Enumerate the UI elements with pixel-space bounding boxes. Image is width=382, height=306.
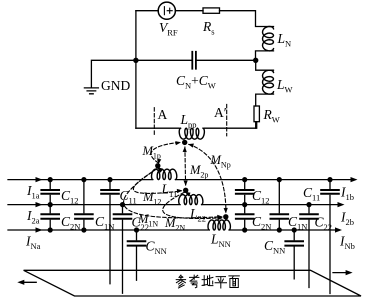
capacitor C_NN (left) <box>136 230 138 280</box>
capacitor C_11 (right) <box>329 180 331 294</box>
svg-text:CNN: CNN <box>264 238 285 256</box>
junction (122.5,204.6) <box>120 202 125 207</box>
svg-text:CN+CW: CN+CW <box>176 73 216 91</box>
wire line3 <box>8 229 339 231</box>
svg-text:MNp: MNp <box>210 153 231 170</box>
inductor L_NN <box>208 220 230 230</box>
source V_RF <box>158 2 175 19</box>
junction (244.7,230.0) <box>242 227 247 232</box>
wire line1 <box>8 179 354 181</box>
capacitor C_N+C_W plates <box>192 52 196 69</box>
svg-text:C2N: C2N <box>61 214 80 232</box>
svg-text:Rs: Rs <box>202 19 215 37</box>
mutual M_1p <box>151 142 179 163</box>
dot terminal L_pp <box>182 140 187 145</box>
mutual M_2p <box>184 147 187 185</box>
svg-text:I2b: I2b <box>340 210 354 228</box>
capacitor C_12 (right) <box>244 180 246 205</box>
svg-text:INa: INa <box>25 234 41 252</box>
return current arrow right <box>333 272 349 274</box>
junction (294.2,230.0) <box>292 227 297 232</box>
svg-text:C1N: C1N <box>95 214 114 232</box>
wire bottom A-A' <box>136 122 256 129</box>
inductor L_pp <box>179 128 204 139</box>
mutual M_Np <box>189 144 226 212</box>
junction (136.5,230.0) <box>134 227 139 232</box>
capacitor C_12 (left) <box>49 180 51 205</box>
dot terminal L_11 <box>155 163 160 168</box>
svg-text:M2p: M2p <box>189 163 208 180</box>
svg-text:INb: INb <box>339 234 355 252</box>
svg-text:C12: C12 <box>61 188 79 206</box>
junction (279.3,230.0) <box>277 227 282 232</box>
junction (279.3,179.6) <box>277 177 282 182</box>
svg-text:L11: L11 <box>161 182 178 200</box>
dot terminal L_22 <box>183 188 188 193</box>
wire R_S to L_N <box>220 11 274 27</box>
svg-text:I1a: I1a <box>26 183 40 201</box>
capacitor C_1N (left) <box>83 180 85 230</box>
svg-text:I1b: I1b <box>340 185 354 203</box>
svg-text:C1N: C1N <box>288 214 307 232</box>
wire to R_S <box>175 10 203 12</box>
svg-text:L22: L22 <box>189 206 206 224</box>
svg-text:C2N: C2N <box>252 214 271 232</box>
svg-text:CNN: CNN <box>146 239 167 257</box>
dot terminal L_NN <box>223 214 228 219</box>
svg-text:LNN: LNN <box>210 232 231 250</box>
junction (50.2,230.0) <box>48 227 53 232</box>
return current arrow left <box>21 281 36 283</box>
inductor L_11 <box>152 169 177 180</box>
section line A' <box>226 104 228 135</box>
mutual M_2N <box>163 193 222 219</box>
junction (330,179.6) <box>327 177 332 182</box>
wire top left <box>136 10 158 12</box>
junction (110,179.6) <box>107 177 112 182</box>
resistor R_W <box>254 106 259 122</box>
capacitor C_22 (right) <box>308 205 310 288</box>
svg-text:RW: RW <box>263 107 280 125</box>
junction (244.7,179.6) <box>242 177 247 182</box>
svg-text:VRF: VRF <box>159 20 178 38</box>
junction (50.2,204.6) <box>48 202 53 207</box>
junction (50.2,179.6) <box>48 177 53 182</box>
mutual M_1N <box>124 169 221 218</box>
mutual M_12 <box>133 169 181 194</box>
junction (83.9,230.0) <box>81 227 86 232</box>
svg-text:M1p: M1p <box>142 144 161 161</box>
text 参考地平面 (reference ground plane) <box>176 275 239 288</box>
capacitor C_N+C_W wire <box>136 59 256 61</box>
capacitor C_22 (left) <box>122 205 124 294</box>
node dot GND junction <box>133 58 138 63</box>
resistor R_S <box>203 8 220 13</box>
svg-text:I2a: I2a <box>26 208 40 226</box>
wire left vertical <box>135 11 137 129</box>
junction (244.7,204.6) <box>242 202 247 207</box>
svg-text:A: A <box>158 107 168 122</box>
svg-text:GND: GND <box>101 78 130 93</box>
ground plane (reference plane) <box>24 270 361 296</box>
junction (309,204.6) <box>306 202 311 207</box>
svg-text:Lpp: Lpp <box>180 112 197 130</box>
svg-text:LN: LN <box>277 31 292 49</box>
capacitor C_NN (right) <box>293 230 295 279</box>
section line A <box>153 108 155 136</box>
capacitor C_2N (right) <box>244 205 246 230</box>
junction (83.9,179.6) <box>81 177 86 182</box>
capacitor C_11 (left) <box>109 180 111 284</box>
capacitor C_2N (left) <box>49 205 51 230</box>
capacitor C_1N (right) <box>278 180 280 230</box>
inductor L_22 <box>179 195 203 205</box>
node dot L_N/L_W junction <box>253 58 258 63</box>
inductor L_N <box>263 27 274 51</box>
inductor L_W <box>256 60 274 70</box>
svg-text:C11: C11 <box>303 185 320 203</box>
ground GND <box>84 60 135 94</box>
svg-text:C12: C12 <box>252 188 270 206</box>
svg-text:LW: LW <box>276 77 293 95</box>
svg-text:A′: A′ <box>214 105 227 120</box>
wire line2 <box>8 204 341 206</box>
